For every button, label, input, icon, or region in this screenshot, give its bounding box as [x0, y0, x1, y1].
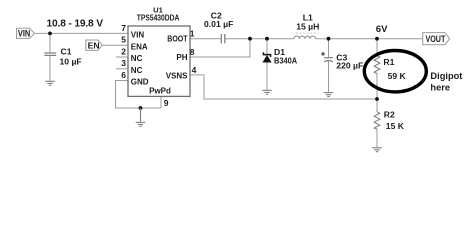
node ground bus junction: [139, 106, 143, 110]
wire R1 bottom: [376, 74, 378, 100]
node D1 junction: [265, 37, 269, 41]
capacitor C1: [44, 53, 56, 55]
op-amp U1 body (regulator IC TPS5430DDA): [128, 26, 190, 96]
svg-text:ENA: ENA: [131, 42, 148, 51]
port VIN: [17, 28, 35, 38]
svg-text:15 K: 15 K: [386, 121, 405, 131]
svg-text:VIN: VIN: [18, 29, 30, 39]
annotation circle around R1: [364, 50, 426, 91]
svg-text:PwPd: PwPd: [149, 87, 171, 96]
node VIN/C1 junction: [48, 32, 52, 36]
port VOUT: [423, 33, 450, 45]
svg-text:PH: PH: [176, 53, 187, 62]
resistor R2: [374, 112, 380, 129]
svg-text:15 µH: 15 µH: [296, 21, 319, 31]
label D1 value: [274, 47, 297, 65]
wire L1 to output: [316, 38, 423, 40]
svg-text:8: 8: [190, 47, 195, 57]
svg-text:VOUT: VOUT: [426, 33, 446, 44]
svg-text:EN: EN: [88, 40, 100, 50]
svg-text:TPS5430DDA: TPS5430DDA: [137, 14, 180, 23]
wire VSNS pin 4 feedback: [190, 75, 377, 99]
svg-text:here: here: [430, 82, 450, 92]
wire PH pin 8 to rail: [190, 39, 250, 57]
svg-text:9: 9: [164, 98, 169, 108]
port EN: [86, 40, 103, 50]
svg-text:220 µF: 220 µF: [336, 61, 363, 71]
svg-text:7: 7: [121, 23, 126, 33]
svg-text:NC: NC: [131, 54, 143, 63]
svg-text:2: 2: [121, 46, 126, 56]
ground U1: [136, 108, 146, 126]
wire C3 top: [328, 39, 330, 58]
wire R2 bottom: [376, 129, 378, 147]
wire BOOT to C2: [190, 38, 221, 40]
wire R2 top: [376, 99, 378, 112]
svg-text:BOOT: BOOT: [167, 35, 187, 44]
resistor R1: [374, 56, 380, 74]
wire D1 anode to ground: [266, 62, 268, 89]
node R1/R2/VSNS junction: [375, 97, 379, 101]
svg-text:GND: GND: [131, 78, 149, 87]
wire VIN rail: [35, 32, 129, 34]
ground D1: [262, 90, 272, 94]
label L1 value: [296, 13, 319, 32]
svg-text:59 K: 59 K: [388, 71, 407, 81]
node VOUT junction: [375, 37, 379, 41]
ground C1: [45, 81, 55, 85]
wire faint underline artifact: [296, 32, 319, 34]
wire R1 top: [376, 39, 378, 56]
svg-text:R1: R1: [383, 57, 394, 67]
transistor D1 schottky diode: [262, 52, 271, 62]
svg-text:C1: C1: [61, 47, 72, 57]
ground R2: [372, 148, 382, 152]
svg-text:Digipot: Digipot: [430, 71, 462, 81]
wire C1 bottom: [49, 56, 51, 81]
svg-text:1: 1: [190, 28, 195, 38]
svg-text:5: 5: [121, 35, 126, 45]
svg-text:B340A: B340A: [274, 56, 297, 66]
capacitor C2: [221, 34, 225, 43]
ground C3: [324, 93, 334, 97]
wire GND pin 6 to ground bus: [116, 81, 162, 109]
wire C1 top: [49, 33, 51, 52]
svg-text:10 µF: 10 µF: [60, 56, 82, 66]
wire C3 bottom: [328, 61, 330, 92]
annotation text: [430, 71, 462, 93]
wire NC pin 2 stub: [116, 56, 128, 58]
svg-text:6V: 6V: [376, 24, 388, 35]
svg-text:VSNS: VSNS: [166, 71, 188, 80]
capacitor C3 polarized: [324, 58, 333, 62]
svg-text:NC: NC: [131, 66, 143, 75]
svg-text:VIN: VIN: [131, 31, 145, 40]
label C3 value: [336, 53, 363, 71]
node C3 junction: [327, 37, 331, 41]
label R1 value: [383, 57, 406, 81]
label R2 value: [384, 109, 405, 130]
inductor L1: [294, 36, 316, 39]
wire D1 top: [266, 39, 268, 55]
label C1 value: [60, 47, 82, 67]
svg-text:3: 3: [121, 58, 126, 68]
label C2 value: [204, 10, 233, 29]
wire PwPd pin 9 stub: [160, 96, 162, 108]
svg-text:4: 4: [192, 65, 197, 75]
wire EN to ENA pin 5: [102, 44, 128, 46]
svg-text:0.01 µF: 0.01 µF: [204, 19, 233, 29]
svg-text:6: 6: [121, 70, 126, 80]
wire C2 to node: [225, 38, 250, 40]
label C3 plus: [321, 52, 325, 56]
wire switching rail: [250, 38, 294, 40]
svg-text:10.8 - 19.8 V: 10.8 - 19.8 V: [47, 19, 104, 30]
wire NC pin 3 stub: [116, 68, 128, 70]
node C2/PH junction: [248, 37, 252, 41]
svg-text:R2: R2: [384, 109, 395, 119]
